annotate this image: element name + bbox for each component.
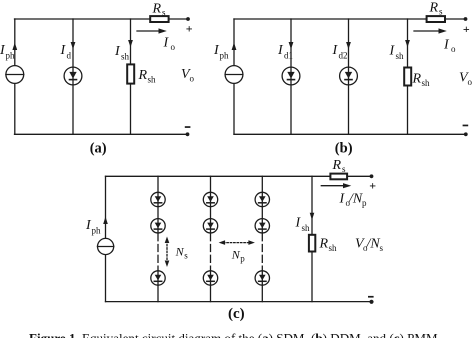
label Vo/Ns (c) [355, 237, 384, 254]
label Rs (a) [152, 2, 167, 18]
arrow: Ish down (a) [128, 40, 133, 47]
svg-text:Figure 1. Equivalent circuit d: Figure 1. Equivalent circuit diagram of … [29, 330, 441, 338]
label - terminal (b) [463, 125, 469, 127]
label Io (a) [163, 36, 176, 53]
svg-text:N: N [175, 245, 185, 259]
svg-text:I: I [389, 44, 396, 59]
svg-text:(b): (b) [335, 140, 353, 156]
wire: (c) column-3 dashed Ns gap [261, 234, 263, 271]
svg-text:s: s [439, 7, 443, 17]
svg-text:ph: ph [6, 51, 16, 61]
wire: (a) top rail right of Rs [169, 18, 189, 20]
svg-text:I: I [339, 192, 346, 207]
svg-text:I: I [295, 216, 302, 231]
resistor Rsh (a) [127, 64, 134, 83]
svg-text:sh: sh [396, 51, 405, 61]
wire: (b) shunt branch [407, 19, 409, 134]
wire: (c) bottom rail [106, 301, 371, 303]
svg-text:sh: sh [422, 78, 431, 88]
svg-text:I: I [163, 36, 170, 51]
node: (b) - terminal [464, 132, 468, 136]
wire: (a) shunt branch [130, 19, 132, 134]
wire: (c) column-1 bottom segment [157, 271, 159, 302]
svg-text:d1: d1 [284, 51, 293, 61]
label Ns (c) [175, 245, 189, 261]
svg-text:(c): (c) [228, 306, 245, 322]
node: (c) - terminal [369, 300, 373, 304]
resistor Rs (b) [427, 16, 445, 22]
label Vo (a) [181, 67, 195, 84]
svg-text:R: R [319, 237, 329, 252]
wire: (b) diode-1 branch [290, 19, 292, 134]
wire: (c) column-3 top segment [261, 176, 263, 233]
svg-text:(a): (a) [90, 140, 107, 156]
label - terminal (c) [368, 296, 374, 298]
svg-text:R: R [138, 68, 148, 83]
label Np (c) [231, 247, 245, 263]
label Id1 (b) [277, 43, 293, 61]
node: (b) + terminal [464, 17, 468, 21]
current source Iph (c) [98, 238, 114, 254]
svg-text:s: s [162, 8, 166, 18]
wire: (c) column-1 dashed Ns gap [157, 234, 159, 271]
diode D13 (c) [151, 271, 165, 285]
svg-text:s: s [342, 164, 346, 174]
wire: (c) shunt branch [311, 176, 313, 301]
svg-text:I: I [332, 43, 339, 58]
diode D1 (a) [64, 67, 82, 85]
diode D22 (c) [203, 219, 217, 233]
arrow: Id1 down (b) [289, 42, 294, 49]
label Id2 (b) [332, 43, 348, 61]
svg-text:+: + [463, 22, 470, 36]
label Vo (b) [459, 71, 473, 88]
wire: (b) bottom rail [234, 133, 466, 135]
arrow: Iph up (c) [103, 217, 108, 225]
label Iph (a) [0, 43, 15, 61]
diode D2 (b) [340, 67, 358, 85]
svg-text:R: R [429, 1, 439, 16]
svg-text:/N: /N [348, 192, 363, 207]
diode D21 (c) [203, 192, 217, 206]
wire: (a) diode branch [72, 19, 74, 134]
wire: (c) column-2 bottom segment [210, 271, 212, 302]
svg-text:s: s [184, 251, 188, 261]
svg-text:I: I [60, 43, 67, 58]
label Rsh (a) [138, 68, 157, 85]
label Id (a) [60, 43, 72, 61]
label Io (b) [443, 38, 456, 55]
arrow: Io/Np (c) [321, 183, 351, 188]
arrow: Id down (a) [71, 42, 76, 49]
label - terminal (a) [185, 126, 191, 128]
svg-text:p: p [240, 254, 245, 264]
svg-text:sh: sh [329, 243, 338, 253]
arrow: Id2 down (b) [346, 42, 351, 49]
diode D31 (c) [255, 192, 269, 206]
diode D11 (c) [151, 192, 165, 206]
label Io/Np (c) [339, 192, 368, 209]
arrow: Np span (c) [219, 240, 255, 245]
arrow: Io (b) [414, 28, 447, 33]
label Ish (b) [389, 44, 405, 62]
wire: (c) top rail [106, 175, 331, 177]
arrow: Iph up (b) [232, 43, 237, 51]
arrow: Io (a) [137, 28, 167, 33]
wire: (b) diode-2 branch [348, 19, 350, 134]
resistor Rs (a) [150, 16, 168, 22]
diode D23 (c) [203, 271, 217, 285]
svg-text:I: I [277, 43, 284, 58]
wire: (a) bottom rail [15, 133, 188, 135]
label Ish (c) [295, 216, 311, 234]
svg-text:o: o [171, 42, 176, 52]
wire: (c) column-2 dashed Ns gap [210, 234, 212, 271]
svg-text:d: d [67, 51, 72, 61]
svg-text:+: + [186, 21, 193, 35]
svg-text:o: o [190, 74, 195, 84]
diode D32 (c) [255, 219, 269, 233]
diode D33 (c) [255, 271, 269, 285]
diode D1 (b) [282, 67, 300, 85]
svg-text:R: R [152, 2, 162, 17]
svg-text:/N: /N [366, 237, 381, 252]
label Rs (b) [429, 1, 444, 17]
diode D12 (c) [151, 219, 165, 233]
wire: (b) top rail [234, 18, 427, 20]
node: (a) + terminal [186, 17, 190, 21]
resistor Rs (c) [330, 174, 347, 180]
label Ish (a) [114, 44, 130, 62]
svg-text:s: s [380, 243, 384, 253]
wire: (c) top rail right of Rs [347, 175, 371, 177]
wire: (c) column-1 top segment [157, 176, 159, 233]
arrow: Ish down (b) [405, 40, 410, 47]
arrow: Ns span (c) [165, 237, 170, 268]
node: (c) + terminal [370, 174, 374, 178]
wire: (c) left branch [105, 176, 107, 301]
current source Iph (b) [225, 66, 243, 84]
svg-text:p: p [362, 198, 367, 208]
wire: (a) left branch [14, 19, 16, 134]
label Iph (c) [85, 218, 101, 236]
svg-text:R: R [332, 158, 342, 173]
svg-text:o: o [451, 44, 456, 54]
svg-text:sh: sh [302, 223, 311, 233]
svg-text:sh: sh [148, 75, 157, 85]
arrow: Ish down (c) [310, 213, 315, 220]
svg-text:ph: ph [92, 226, 102, 236]
current source Iph (a) [6, 66, 24, 84]
svg-text:+: + [369, 178, 376, 192]
resistor Rsh (c) [309, 235, 315, 252]
svg-text:I: I [114, 44, 121, 59]
svg-text:sh: sh [121, 52, 130, 62]
wire: (b) left branch [233, 19, 235, 134]
arrow: Iph up (a) [12, 43, 17, 51]
wire: (c) column-3 bottom segment [261, 271, 263, 302]
wire: (b) top rail right of Rs [446, 18, 466, 20]
label Rsh (c) [319, 237, 338, 254]
svg-text:o: o [468, 77, 473, 87]
label Rs (c) [332, 158, 347, 174]
svg-text:R: R [412, 72, 422, 87]
label Iph (b) [213, 43, 229, 61]
svg-text:I: I [443, 38, 450, 53]
wire: (a) top rail [15, 18, 151, 20]
wire: (c) column-2 top segment [210, 176, 212, 233]
svg-text:ph: ph [220, 51, 230, 61]
resistor Rsh (b) [404, 68, 411, 86]
svg-text:d2: d2 [339, 51, 348, 61]
label Rsh (b) [412, 72, 431, 89]
node: (a) - terminal [186, 132, 190, 136]
